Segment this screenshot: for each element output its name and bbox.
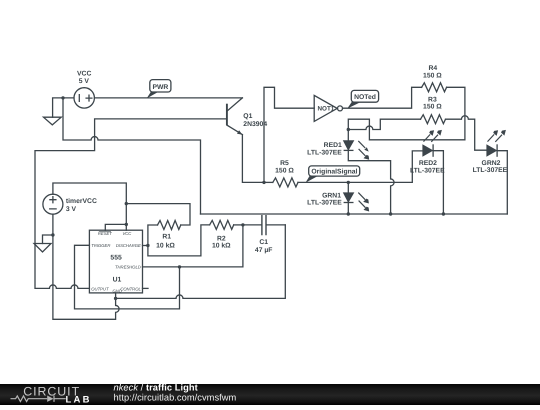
DISCHARGE pin stub (143, 245, 148, 247)
svg-text:Q1: Q1 (243, 113, 252, 120)
wire to ground at timerVCC (43, 235, 53, 244)
svg-text:R3: R3 (428, 97, 437, 104)
wire R3 right to GRN2 anode with hop (446, 116, 487, 150)
svg-text:LTL-307EE: LTL-307EE (410, 168, 445, 175)
LED GRN1 LTL-307EE (344, 182, 370, 214)
wire NOT1 output to R4 (343, 87, 422, 108)
svg-text:150 Ω: 150 Ω (275, 168, 294, 175)
svg-text:OriginalSignal: OriginalSignal (311, 169, 357, 176)
svg-text:U1: U1 (113, 276, 122, 283)
junction dot THRESHOLD TRIGGER node (178, 265, 181, 268)
junction dot R2 C1 THRESHOLD node (241, 223, 244, 226)
CONTROL pin stub (143, 287, 149, 289)
wire RED1 cathode to bus with hop (348, 150, 394, 214)
label flag PWR (147, 80, 171, 99)
wire TRIGGER to THRESHOLD riser (75, 245, 180, 309)
LED RED2 LTL-307EE (423, 130, 442, 157)
junction dot timerVCC negative ground node (51, 233, 54, 236)
junction dot RED2 cathode at bus (442, 212, 445, 215)
svg-text:DISCHARGE: DISCHARGE (116, 243, 141, 248)
svg-text:R4: R4 (428, 65, 437, 72)
svg-text:R2: R2 (217, 235, 226, 242)
LED RED1 LTL-307EE (344, 141, 370, 160)
junction dot VCC negative node (61, 96, 64, 99)
junction dot emitter R5 NOT input node (262, 181, 265, 184)
svg-text:GND: GND (113, 288, 122, 293)
wire C1 right to GND with hop (116, 225, 286, 299)
svg-text:VCC: VCC (77, 70, 91, 77)
wire R4 right down and left to RED1 anode (348, 87, 465, 140)
wire THRESHOLD to R2 C1 node (143, 225, 243, 267)
svg-text:150 Ω: 150 Ω (423, 73, 442, 80)
svg-text:NOT1: NOT1 (318, 106, 335, 113)
svg-text:10 kΩ: 10 kΩ (212, 242, 231, 249)
wire GND to timerVCC negative with hop (53, 214, 119, 319)
svg-text:http://circuitlab.com/cvmsfwm: http://circuitlab.com/cvmsfwm (114, 393, 237, 403)
wire NOT1 input from R5 node (264, 87, 314, 182)
resistor R1 (158, 221, 181, 230)
svg-text:C1: C1 (259, 239, 268, 246)
wire DISCHARGE node to R2 left (148, 225, 210, 256)
LED GRN2 LTL-307EE (487, 130, 506, 157)
svg-text:LAB: LAB (66, 394, 92, 405)
resistor R3 (421, 115, 446, 124)
wire RESET tied to VCC (105, 224, 126, 230)
resistor R4 (422, 83, 447, 92)
svg-text:RESET: RESET (98, 231, 112, 236)
wire 555 OUTPUT to Q1 base with two hops (35, 119, 226, 289)
ground symbol at VCC (44, 117, 62, 125)
svg-text:PWR: PWR (152, 84, 168, 91)
wire GRN2 cathode to bus (497, 151, 507, 214)
svg-text:R5: R5 (280, 160, 289, 167)
wire RED1 anode to R3 left with hop (348, 119, 420, 129)
capacitor C1 47uF (243, 215, 285, 235)
svg-text:nkeck / traffic Light: nkeck / traffic Light (114, 383, 198, 393)
svg-text:RED1: RED1 (324, 142, 342, 149)
wire R1 left to DISCHARGE (148, 225, 158, 246)
svg-text:LTL-307EE: LTL-307EE (307, 199, 342, 206)
voltage source timerVCC 3V (43, 194, 63, 214)
label flag OriginalSignal (306, 166, 360, 183)
wire ground rail with hop to LED return bus (63, 98, 201, 214)
svg-text:R1: R1 (162, 234, 171, 241)
svg-text:timerVCC: timerVCC (66, 198, 97, 205)
IC U1 555 timer (89, 230, 142, 293)
junction dot 555 GND node (114, 297, 117, 300)
label flag NOTed (347, 90, 378, 108)
svg-text:TRIGGER: TRIGGER (91, 243, 110, 248)
junction dot VCC R1 node (125, 202, 128, 205)
wire VCC negative to ground (53, 98, 74, 117)
wire R2 right to C1 node (234, 224, 243, 226)
wire VCC node to R1 right (126, 204, 190, 225)
junction dot GRN1 anode (347, 181, 350, 184)
CircuitLab logo circuit line with resistor and diode (11, 396, 66, 402)
wire PWR net VCC+ to Q1 collector (95, 97, 243, 99)
GND pin stub (115, 293, 117, 299)
junction dot RESET tie (125, 223, 128, 226)
junction dot GRN1 cathode at bus (347, 212, 350, 215)
wire RED2 cathode to bus (433, 151, 443, 214)
svg-text:10 kΩ: 10 kΩ (156, 242, 175, 249)
svg-text:LTL-307EE: LTL-307EE (473, 167, 508, 174)
transistor Q1 2N3904 (227, 98, 243, 135)
svg-text:GRN2: GRN2 (482, 160, 501, 167)
svg-text:OUTPUT: OUTPUT (91, 286, 109, 291)
svg-text:150 Ω: 150 Ω (423, 104, 442, 111)
svg-text:LTL-307EE: LTL-307EE (307, 149, 342, 156)
svg-text:RED2: RED2 (419, 160, 437, 167)
wire LED return bus (201, 213, 508, 215)
inverter NOT1 (314, 95, 342, 121)
svg-text:VCC: VCC (122, 231, 132, 236)
ground symbol at timerVCC (34, 244, 51, 253)
svg-text:47 µF: 47 µF (255, 247, 273, 254)
wire timerVCC positive to 555 VCC pin (53, 183, 126, 230)
resistor R5 (264, 181, 273, 183)
svg-text:555: 555 (110, 255, 122, 262)
svg-text:CONTROL: CONTROL (120, 286, 141, 291)
wire Q1 emitter down to R5 node (242, 135, 264, 183)
resistor R2 (210, 220, 234, 229)
footer black bar (0, 384, 540, 405)
wire OriginalSignal net to RED2 anode (298, 151, 423, 183)
junction dot DISCHARGE node (146, 244, 149, 247)
voltage source VCC 5V (74, 88, 94, 108)
junction dot RED1 cathode at bus (389, 212, 392, 215)
svg-text:THRESHOLD: THRESHOLD (115, 265, 141, 270)
svg-text:5 V: 5 V (79, 78, 90, 85)
junction dot RED1 anode node (347, 128, 350, 131)
svg-text:3 V: 3 V (66, 206, 77, 213)
svg-text:NOTed: NOTed (354, 94, 376, 101)
